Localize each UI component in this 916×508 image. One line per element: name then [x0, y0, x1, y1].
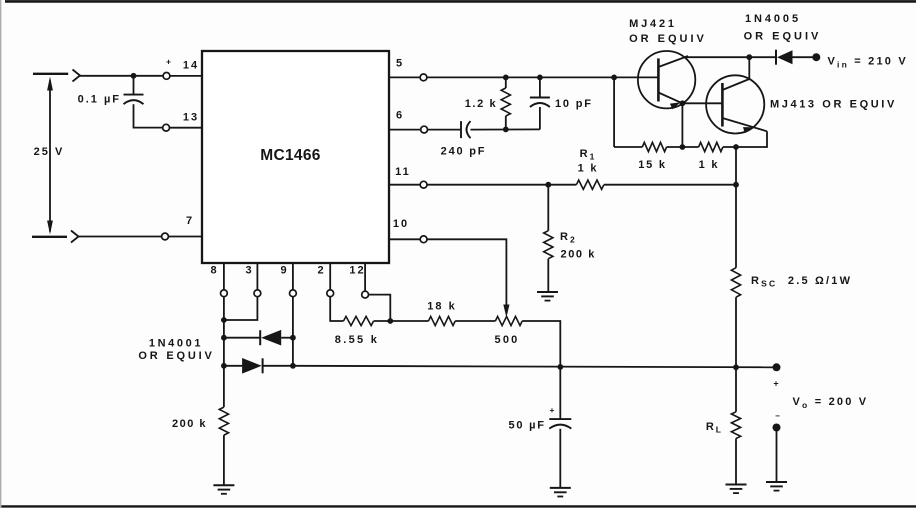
- label Vin = 210 V: [828, 56, 908, 70]
- border bottom edge: [0, 505, 916, 507]
- wire bottom input to pin 7: [79, 236, 162, 238]
- junction dot pin8-pin3 join: [221, 317, 227, 323]
- wire pin 9 stub: [292, 263, 294, 290]
- wire 240pF to 1.2k bottom: [471, 128, 540, 130]
- svg-text:14: 14: [183, 60, 199, 72]
- wire 10pF top lead: [539, 77, 541, 97]
- wire pin 3 to pin 8 column: [224, 297, 258, 320]
- junction dot 50uF tap: [557, 364, 563, 370]
- ground 200k: [213, 485, 234, 494]
- svg-text:1N4001: 1N4001: [149, 338, 203, 350]
- transistor Q1 MJ421: [638, 51, 695, 109]
- label 200 k: [172, 418, 207, 430]
- wire pin 11 to R1: [427, 184, 576, 186]
- label 18 k: [427, 301, 456, 313]
- pin 10 terminal circle: [420, 236, 427, 243]
- svg-text:200 k: 200 k: [561, 249, 597, 261]
- junction dot pin12 node: [387, 318, 393, 324]
- capacitor 10pF: [530, 98, 550, 108]
- junction dot R2 tap: [545, 182, 551, 188]
- svg-text:OR EQUIV: OR EQUIV: [744, 31, 822, 43]
- pin 14 plus polarity mark: [166, 57, 171, 67]
- pin 13 terminal circle: [163, 124, 170, 131]
- label 25 V: [34, 146, 65, 158]
- label 500: [495, 334, 520, 346]
- svg-text:1 k: 1 k: [699, 159, 720, 171]
- svg-text:OR EQUIV: OR EQUIV: [629, 33, 707, 45]
- svg-text:15 k: 15 k: [638, 159, 667, 171]
- svg-text:8.55 k: 8.55 k: [335, 334, 379, 346]
- svg-text:MC1466: MC1466: [260, 147, 320, 164]
- wire 0.1uF top lead: [133, 76, 135, 95]
- wire 0.1uF bottom lead to pin 13: [134, 104, 163, 127]
- svg-text:+: +: [550, 405, 555, 415]
- pin 12 label: [349, 265, 365, 277]
- svg-text:50 µF: 50 µF: [508, 420, 545, 432]
- wire pin 10 to pot wiper: [427, 239, 506, 307]
- label R2: [560, 231, 577, 245]
- ground R2: [537, 292, 558, 301]
- label 15 k: [638, 159, 667, 171]
- wire pin 9 down: [292, 297, 294, 366]
- label 8.55 k: [335, 334, 379, 346]
- wire pin 5 to Q1 base node: [427, 76, 614, 78]
- pot wiper arrowhead: [503, 305, 509, 318]
- resistor R2 200k: [544, 231, 553, 259]
- wire 10pF bottom lead: [539, 107, 541, 129]
- node Vin- bottom input terminal bar: [32, 236, 67, 238]
- svg-text:MJ413 OR EQUIV: MJ413 OR EQUIV: [770, 99, 897, 111]
- wire RL top lead: [735, 367, 737, 412]
- label 240 pF: [441, 146, 487, 158]
- border top edge: [5, 0, 916, 3]
- wire 15k to 1k: [667, 146, 699, 148]
- wire pin 3 stub: [256, 263, 258, 290]
- wire pin 2 to 8.55k: [330, 297, 343, 321]
- wire Q1 base lead: [614, 76, 658, 78]
- pin 8 label: [210, 265, 218, 277]
- svg-text:12: 12: [349, 265, 365, 277]
- svg-text:1 k: 1 k: [578, 163, 599, 175]
- svg-text:18 k: 18 k: [427, 301, 456, 313]
- label RSC 2.5 ohm: [751, 275, 852, 289]
- op-amp U1 MC1466 regulator IC body: [202, 51, 389, 263]
- svg-text:3: 3: [245, 265, 253, 277]
- pin 3 terminal circle: [254, 290, 261, 297]
- wire pin 12 stub: [364, 263, 366, 291]
- pin 2 terminal circle: [327, 290, 334, 297]
- svg-text:OR EQUIV: OR EQUIV: [138, 350, 214, 362]
- transistor Q2 MJ413: [706, 75, 767, 133]
- junction dot R1 right at RSC column: [733, 182, 739, 188]
- wire Q1 base node down to 15k rail: [613, 77, 615, 147]
- junction dot 0.1uF tap: [131, 73, 137, 79]
- wire pin 6 to 240pF: [428, 129, 462, 131]
- wire pin 8 down: [223, 297, 225, 407]
- diode D2 1N4001 upper: [224, 330, 293, 346]
- pin 11 label: [395, 166, 411, 178]
- label OR EQUIV diode D1: [744, 31, 822, 43]
- pin 6 terminal circle: [421, 126, 428, 133]
- label RL: [706, 421, 723, 435]
- wire 200k to ground: [223, 435, 225, 485]
- resistor RL: [731, 412, 740, 439]
- wire output rail: [293, 366, 777, 368]
- connector chevron bottom input: [71, 231, 79, 243]
- pin 8 terminal circle: [221, 290, 228, 297]
- resistor 200k leads: [223, 406, 225, 408]
- wire R2 top lead: [547, 185, 549, 231]
- wire 50uF to ground: [559, 429, 561, 488]
- resistor 18k: [429, 316, 456, 325]
- wire pin 14 stub: [170, 75, 202, 77]
- junction dot diode-collector rail: [746, 54, 752, 60]
- wire top input to pin 14: [80, 75, 163, 77]
- label R1: [580, 148, 597, 162]
- svg-text:0.1 µF: 0.1 µF: [78, 94, 121, 106]
- label OR EQUIV Q1: [629, 33, 707, 45]
- wire pin 5 stub: [389, 76, 420, 78]
- wire Q1 emitter down to 15k-1k node: [681, 103, 683, 147]
- label 1 k: [699, 159, 720, 171]
- capacitor 50uF: [549, 419, 571, 429]
- wire Q2 base lead: [682, 102, 722, 104]
- pin 6 label: [396, 110, 404, 122]
- resistor RSC: [731, 268, 740, 298]
- junction dot RSC top: [733, 144, 739, 150]
- resistor 8.55k: [344, 316, 374, 325]
- resistor 200k: [219, 407, 228, 435]
- label Vo plus: [773, 379, 778, 389]
- potentiometer 500: [495, 316, 522, 325]
- junction dot 1.2k top: [503, 75, 509, 81]
- resistor 1k: [699, 142, 723, 151]
- diode D1 1N4005: [776, 50, 793, 65]
- label Vo = 200 V: [793, 396, 869, 410]
- label MJ421: [629, 18, 677, 30]
- wire 50uF top lead: [559, 367, 561, 419]
- pin 9 label: [280, 265, 288, 277]
- border left edge: [0, 0, 2, 508]
- svg-text:200 k: 200 k: [172, 418, 207, 430]
- svg-text:6: 6: [396, 110, 404, 122]
- svg-text:−: −: [775, 412, 780, 421]
- label R2 value 200 k: [561, 249, 597, 261]
- label 50 uF: [508, 420, 545, 432]
- junction dot Q1 emitter Q2 base: [680, 100, 686, 106]
- svg-text:7: 7: [186, 215, 194, 227]
- svg-text:9: 9: [280, 265, 288, 277]
- pin 7 label: [186, 215, 194, 227]
- wire pin 6 stub: [389, 129, 421, 131]
- label 0.1 uF: [78, 94, 121, 106]
- svg-text:5: 5: [396, 58, 404, 70]
- node Vo- terminal dot: [773, 424, 781, 432]
- node Vo+ terminal dot: [773, 363, 781, 371]
- resistor R1 1k: [576, 180, 604, 189]
- node Vin+ top input terminal bar: [33, 73, 68, 75]
- svg-text:10: 10: [393, 218, 409, 230]
- junction dot emitter rail: [680, 144, 686, 150]
- ground RL: [726, 485, 747, 494]
- wire diode to Vin terminal: [793, 56, 813, 58]
- pin 9 terminal circle: [290, 290, 297, 297]
- wire 1k to Q2 emitter: [723, 131, 767, 147]
- wire pin 11 stub: [389, 184, 420, 186]
- node Vin terminal dot: [812, 53, 820, 61]
- capacitor C1 0.1uF: [124, 95, 144, 105]
- ground Vo-: [766, 482, 787, 491]
- label Vo minus: [775, 412, 780, 421]
- wire 15k rail left: [614, 146, 642, 148]
- label 1.2 k: [465, 98, 497, 110]
- svg-text:25 V: 25 V: [34, 146, 65, 158]
- wire 18k to pot: [455, 320, 495, 322]
- svg-text:+: +: [773, 379, 778, 389]
- wire RSC upper lead: [735, 147, 737, 268]
- svg-text:10 pF: 10 pF: [555, 98, 593, 110]
- resistor 15k: [642, 142, 666, 151]
- junction dot pin9 lower diode: [290, 363, 296, 369]
- pin 11 terminal circle: [420, 181, 427, 188]
- svg-text:500: 500: [495, 334, 520, 346]
- resistor 1.2k: [501, 88, 510, 116]
- pin 13 label: [183, 112, 199, 124]
- pin 10 label: [393, 218, 409, 230]
- svg-text:240 pF: 240 pF: [441, 146, 487, 158]
- svg-text:+: +: [166, 57, 171, 67]
- wire R2 bottom lead: [547, 259, 549, 292]
- wire Q2 collector up: [748, 57, 750, 79]
- pin 3 label: [245, 265, 253, 277]
- wire RL to ground: [735, 439, 737, 485]
- junction dot 10pF top: [537, 75, 543, 81]
- pin 5 terminal circle: [420, 74, 427, 81]
- label 1N4001: [149, 338, 203, 350]
- svg-text:MJ421: MJ421: [629, 18, 677, 30]
- ground 50uF: [550, 488, 571, 497]
- pin 5 label: [396, 58, 404, 70]
- svg-text:1.2 k: 1.2 k: [465, 98, 497, 110]
- wire pin 7 stub: [168, 236, 202, 238]
- wire R1 to RSC column: [604, 184, 736, 186]
- svg-text:13: 13: [183, 112, 199, 124]
- pin 14 label: [183, 60, 199, 72]
- label 1N4005: [745, 13, 801, 25]
- wire pin 10 stub: [389, 238, 420, 240]
- wire RSC lower lead: [735, 297, 737, 367]
- wire pin 13 stub: [170, 127, 203, 129]
- junction dot Q1 base node: [611, 75, 617, 81]
- dimension 25V arrow line: [47, 77, 53, 235]
- capacitor 240pF: [461, 121, 471, 138]
- label 10 pF: [555, 98, 593, 110]
- svg-text:8: 8: [210, 265, 218, 277]
- wire 8.55k to 18k: [374, 320, 429, 322]
- connector chevron top input: [73, 70, 81, 82]
- wire pin 8 stub: [223, 263, 225, 290]
- junction dot pin8 lower diode: [221, 363, 227, 369]
- junction dot pin9 upper diode: [290, 335, 296, 341]
- label 50uF plus: [550, 405, 555, 415]
- diode D3 1N4001 lower: [224, 358, 293, 374]
- junction dot pin8 upper diode: [221, 335, 227, 341]
- pin 12 terminal circle: [362, 291, 369, 298]
- resistor 1.2k leads: [505, 77, 507, 129]
- pin 7 terminal circle: [162, 233, 169, 240]
- junction dot RL tap: [733, 364, 739, 370]
- label MJ413 OR EQUIV: [770, 99, 897, 111]
- wire Vo- to ground: [776, 428, 778, 483]
- wire pin 12 to 8.55k node: [369, 295, 391, 321]
- svg-text:11: 11: [395, 166, 411, 178]
- pin 14 terminal circle: [163, 73, 170, 80]
- junction dot 1.2k bottom: [503, 126, 509, 132]
- wire pot to output rail: [522, 321, 560, 367]
- wire pin 2 stub: [329, 263, 331, 290]
- svg-text:1N4005: 1N4005: [745, 13, 801, 25]
- label OR EQUIV diodes: [138, 350, 214, 362]
- svg-text:2: 2: [317, 265, 325, 277]
- wire collector top rail: [686, 56, 775, 58]
- pin 2 label: [317, 265, 325, 277]
- label R1 value 1 k: [578, 163, 599, 175]
